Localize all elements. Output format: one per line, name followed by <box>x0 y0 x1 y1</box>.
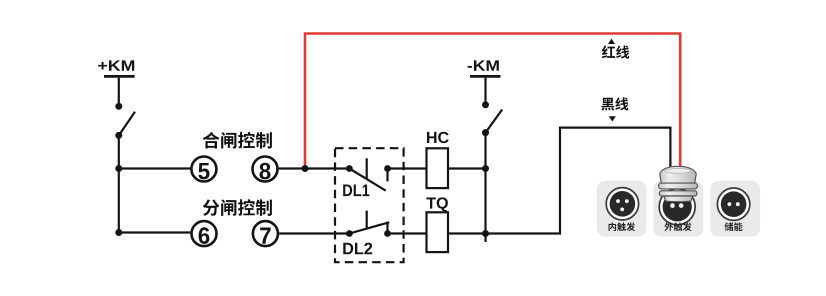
switch KM2 lower contact dot <box>482 129 489 136</box>
label: black wire 黑线 <box>601 97 628 110</box>
button tile: external trigger 外触发 <box>653 181 703 237</box>
label: opening control 分闸控制 <box>203 199 272 216</box>
wire: bus to terminal 5 <box>119 167 190 169</box>
contact DL2 right tail <box>386 222 388 234</box>
node: HC / -KM bus junction <box>482 165 489 172</box>
terminal 7 <box>253 221 278 246</box>
wire: +KM bar down to switch <box>118 78 120 107</box>
contact DL1 blade <box>349 169 385 191</box>
power terminal -KM bar <box>470 75 500 78</box>
terminal 5 <box>191 157 216 182</box>
coil HC <box>427 148 449 188</box>
label: closing control 合闸控制 <box>203 132 272 149</box>
wire: DL1 to HC coil <box>388 167 428 169</box>
power terminal +KM bar <box>104 75 135 78</box>
contact DL2 left dot <box>346 230 353 237</box>
switch KM2 blade <box>486 110 503 133</box>
socket: external trigger <box>659 189 695 225</box>
label TQ <box>426 197 447 211</box>
switch KM1 lower contact dot <box>115 132 122 139</box>
socket: internal trigger <box>606 188 638 220</box>
node: bus / opening row end <box>115 229 122 236</box>
switch KM1 blade <box>119 112 135 136</box>
wire: terminal 8 to DL1 <box>279 167 350 169</box>
switch KM2 upper contact dot <box>482 101 489 108</box>
wire: -KM bar down to switch <box>484 78 486 105</box>
socket: charge <box>717 188 749 220</box>
contact DL1 left dot <box>346 165 353 172</box>
contact DL1 right dot <box>384 165 391 172</box>
wire: +KM bus vertical <box>118 135 120 232</box>
node: TQ / -KM bus junction <box>482 230 489 237</box>
label DL2 <box>343 243 372 255</box>
power terminal -KM label <box>468 60 499 70</box>
contact DL1 bar <box>366 158 368 178</box>
button tile: charge 储能 <box>710 181 760 237</box>
node: red wire tap on closing row <box>302 165 309 172</box>
contact DL1 right tail <box>386 169 388 182</box>
label DL1 <box>343 185 369 197</box>
wire: black lead from TQ junction right, up, across, down to detonator plug <box>486 128 671 234</box>
label: red wire 红线 <box>602 45 629 58</box>
wire: bus to terminal 6 <box>119 231 191 233</box>
contact DL2 bar <box>366 211 368 229</box>
coil TQ <box>427 212 449 252</box>
arrow up toward red wire <box>608 39 615 44</box>
switch KM1 upper contact dot <box>115 103 122 110</box>
label HC <box>427 132 449 143</box>
node: bus / closing row junction <box>115 165 122 172</box>
arrow down toward black wire <box>609 116 616 121</box>
wire: DL2 to TQ coil <box>388 232 428 234</box>
contact DL2 blade <box>349 222 389 233</box>
wire: terminal 7 to DL2 <box>279 232 349 234</box>
breaker auxiliary contact enclosure (dashed) <box>335 148 404 262</box>
detonator plug body <box>659 166 698 201</box>
terminal 8 <box>253 157 278 182</box>
power terminal +KM label <box>98 60 134 70</box>
wire: HC coil to -KM bus <box>448 167 486 169</box>
contact DL2 right dot <box>384 230 391 237</box>
terminal 6 <box>192 221 217 246</box>
wire: red positive lead from node at terminal 8 up, across top, down to detonator plug <box>305 34 680 171</box>
button tile: internal trigger 内触发 <box>597 181 647 237</box>
wire: -KM bus vertical <box>484 133 486 242</box>
wire: TQ coil to -KM bus <box>448 232 486 234</box>
